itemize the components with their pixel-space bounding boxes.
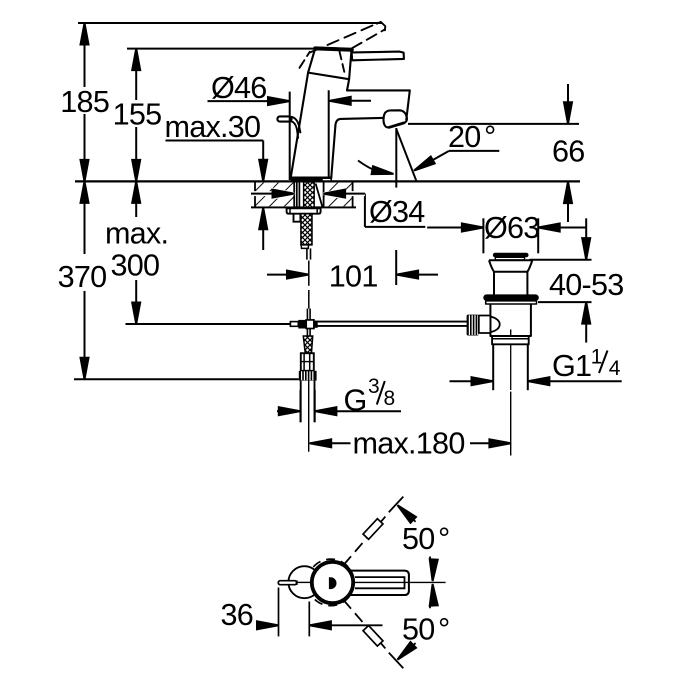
svg-text:40-53: 40-53 (549, 268, 624, 302)
lower lever grip outline (363, 626, 383, 647)
lever handle raised (dashed) upper edge (311, 23, 378, 52)
dimension 36 (278, 588, 280, 637)
view centerline (297, 581, 312, 583)
threaded shank in hole (304, 182, 315, 207)
dimension O34 arrows (over hatch) (251, 189, 365, 198)
knob connector (479, 316, 491, 334)
hose nut (knurled) (299, 371, 317, 381)
spout outlet level line (408, 123, 579, 125)
connector arc inside body (490, 317, 499, 333)
inner circle (313, 563, 352, 602)
20 deg construction vertical (395, 128, 397, 188)
horizontal pop-up actuator rod (315, 321, 467, 323)
svg-text:max.30: max.30 (165, 110, 261, 144)
supply hose level line (max300 bottom) (126, 323, 292, 325)
svg-text:8: 8 (384, 387, 395, 410)
svg-text:185: 185 (60, 85, 109, 119)
slab bottom line (251, 206, 356, 208)
svg-text:370: 370 (58, 260, 107, 294)
dimension 66 (564, 84, 572, 222)
svg-text:300: 300 (111, 249, 160, 283)
upper lever grip outline (363, 519, 383, 540)
upper lever solid tail (389, 497, 404, 513)
aerator (383, 110, 406, 127)
dimension 155 (132, 49, 140, 182)
hole right wall (323, 182, 325, 207)
lower lever position dashed (344, 600, 390, 653)
clevis block (298, 320, 306, 329)
rubber gasket (483, 294, 539, 301)
pull rod curve into body (291, 121, 298, 137)
slab right edge (352, 182, 354, 207)
base gasket dark bar (291, 178, 322, 182)
hose centerline (308, 381, 310, 452)
svg-text:155: 155 (113, 98, 162, 132)
svg-text:max.180: max.180 (353, 426, 465, 460)
dimension max.30 leader (166, 141, 268, 251)
svg-text:Ø46: Ø46 (211, 71, 267, 105)
dimension O34 leader (vertical part) (365, 194, 425, 227)
dimension O46 (208, 90, 372, 180)
svg-text:4: 4 (609, 357, 621, 380)
svg-text:50°: 50° (402, 612, 450, 646)
bottom line 370 (74, 378, 299, 380)
threaded rod below counter (301, 214, 312, 245)
extension line 155 level (127, 48, 315, 50)
slab hatch left block (255, 183, 294, 207)
dimension 101 (267, 250, 438, 285)
hole left wall (293, 182, 295, 207)
svg-text:3: 3 (368, 375, 379, 398)
lever raised tip cap (377, 22, 385, 30)
bottom ring (492, 336, 529, 344)
clamp bracket (294, 214, 301, 222)
faucet cap (lever base) (308, 48, 352, 79)
tailpipe walls (492, 344, 494, 390)
svg-text:50°: 50° (402, 522, 450, 556)
dimension 185 (81, 23, 89, 181)
svg-text:G: G (344, 384, 367, 418)
spout stub (278, 581, 296, 585)
svg-text:36: 36 (221, 598, 254, 632)
lower 50deg arrows (395, 642, 416, 663)
body circle (spout side) (288, 566, 320, 598)
dimension O63 (427, 218, 585, 253)
body left edge (291, 73, 309, 179)
lever raised lower edge dashed (352, 30, 385, 49)
svg-text:101: 101 (329, 260, 378, 294)
plug cap dark bar (493, 253, 529, 258)
cap top thick edge (315, 48, 352, 49)
lever pivot D mark (329, 577, 337, 589)
waste body (490, 304, 531, 336)
dimension 20 deg leader (412, 151, 499, 174)
drain centerlines (510, 330, 512, 337)
slab left edge (254, 182, 256, 207)
threaded cone on shank (303, 336, 312, 353)
slab hatch right block (324, 183, 353, 207)
spout underside (331, 118, 384, 178)
dimension G 3/8 (277, 390, 401, 422)
lever raised rear dashed (300, 52, 310, 68)
svg-text:Ø63: Ø63 (484, 211, 540, 245)
dimension 370 (81, 181, 89, 379)
pop-up pull rod knob (277, 116, 291, 121)
extension line top (lever raised level) (78, 22, 383, 24)
svg-text:G1: G1 (552, 349, 591, 383)
dimension G1 1/4 (450, 377, 622, 385)
faucet centerline (308, 261, 310, 286)
washer under counter (287, 208, 321, 213)
upper lever position dashed (344, 512, 390, 565)
svg-text:Ø34: Ø34 (369, 195, 425, 229)
rotation envelope dashed circle (307, 559, 354, 606)
svg-text:66: 66 (552, 134, 585, 168)
20 deg slant line (396, 129, 416, 181)
upper 50deg arrows (395, 502, 416, 523)
clevis pin verticals (306, 309, 308, 337)
shank right slant edge (316, 184, 323, 207)
waste neck walls (493, 272, 495, 295)
lever raised inner dashed (crossing cap) (340, 52, 345, 72)
washer ring under gasket (486, 301, 537, 304)
svg-text:max.: max. (105, 217, 168, 251)
hex adapter (301, 353, 314, 371)
svg-text:1: 1 (591, 345, 602, 368)
flexible hose walls (300, 381, 302, 423)
lower lever solid tail (389, 653, 404, 669)
plug under-disc (495, 257, 524, 260)
rod tip (301, 245, 308, 249)
dimension max.180 (310, 439, 511, 447)
handle inner outline (355, 577, 405, 588)
body right edge + spout (347, 79, 410, 119)
fraction slashes (377, 351, 608, 405)
shank tube lines in hole (296, 182, 298, 207)
lever handle horizontal (352, 52, 404, 61)
pop-up pin (306, 248, 308, 259)
clevis left tip (290, 322, 298, 327)
handle bar outer (340, 571, 409, 595)
faucet base line (291, 176, 332, 178)
dimension 40-53 (530, 218, 592, 342)
dimension max.300 (132, 181, 140, 324)
knurled knob (467, 315, 479, 336)
waste flange (489, 260, 532, 271)
20 deg arc arrow (358, 161, 394, 178)
svg-text:20°: 20° (448, 120, 496, 154)
main knob circle (311, 561, 354, 604)
countertop line (75, 180, 580, 182)
